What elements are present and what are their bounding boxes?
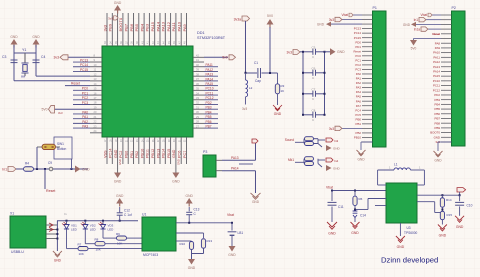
wire	[325, 51, 331, 53]
svg-text:3v3: 3v3	[329, 127, 334, 131]
MCU left pin 7	[90, 85, 102, 87]
svg-text:PA7: PA7	[356, 104, 362, 108]
MCU bottom pin 24	[143, 137, 145, 164]
svg-text:C13: C13	[194, 208, 200, 212]
ground	[438, 225, 447, 232]
svg-text:PC12: PC12	[433, 88, 441, 92]
P1 pin 6	[362, 37, 373, 39]
svg-text:PA14: PA14	[433, 70, 440, 74]
capacitor C11	[331, 191, 333, 202]
svg-text:R15: R15	[447, 213, 453, 217]
P1 pin 2	[362, 19, 373, 21]
LED VD1	[66, 221, 68, 225]
MCU top pin 33	[106, 13, 108, 46]
MCU right pin 11	[193, 104, 204, 106]
svg-text:PB5: PB5	[435, 107, 441, 111]
svg-text:PA11: PA11	[433, 55, 440, 59]
svg-text:LED: LED	[108, 228, 115, 232]
ground	[455, 216, 464, 223]
ground	[351, 222, 360, 229]
MCU DD1 STM32F103R6T body	[102, 46, 193, 137]
ground	[114, 5, 121, 14]
MCU bottom pin 30	[175, 137, 177, 173]
svg-text:Vbat: Vbat	[326, 186, 333, 190]
P1 pin 4	[362, 28, 373, 30]
svg-text:In4: In4	[334, 159, 339, 163]
svg-text:Reset: Reset	[432, 32, 440, 36]
svg-text:SW1: SW1	[57, 142, 64, 146]
X1 pin 3	[46, 233, 57, 235]
svg-text:PA9: PA9	[182, 23, 187, 31]
svg-text:PB15: PB15	[167, 149, 171, 158]
wire Vbat rail	[332, 190, 386, 192]
svg-text:PA1: PA1	[356, 77, 362, 81]
wire	[13, 45, 15, 81]
MCU right pin 12	[193, 108, 204, 110]
svg-text:PC11: PC11	[206, 91, 214, 95]
ground	[361, 141, 373, 143]
svg-text:GND: GND	[32, 35, 40, 39]
svg-text:R14: R14	[446, 198, 452, 202]
P2 pin 17	[441, 89, 452, 91]
ground	[251, 193, 261, 199]
MCU left pin 17	[90, 132, 102, 134]
MCU right pin 4	[193, 70, 204, 72]
svg-text:GND: GND	[357, 158, 365, 162]
P1 pin 19	[362, 96, 373, 98]
resistor R12	[305, 157, 314, 161]
svg-text:10K: 10K	[96, 247, 101, 251]
svg-text:3v3: 3v3	[102, 24, 107, 31]
MCU top pin 43	[159, 13, 161, 46]
svg-text:GND: GND	[397, 245, 405, 249]
pin harpoon	[49, 228, 53, 232]
MCU top pin 44	[164, 13, 166, 46]
svg-text:USBB-U: USBB-U	[11, 250, 24, 254]
svg-text:R6: R6	[359, 197, 363, 201]
P1 pin 27	[362, 132, 373, 134]
wire	[222, 170, 256, 172]
P1 pin 25	[362, 123, 373, 125]
port In1	[8, 167, 16, 172]
net label PB7	[204, 127, 218, 129]
LED VD3	[102, 221, 104, 225]
svg-text:PB12: PB12	[151, 149, 155, 158]
svg-text:GND: GND	[10, 35, 18, 39]
svg-text:PA13: PA13	[433, 65, 440, 69]
P1 pin 29	[362, 141, 373, 143]
svg-text:PB3: PB3	[145, 23, 150, 31]
svg-text:GND: GND	[82, 167, 90, 171]
wire	[255, 171, 257, 193]
resistor R6	[354, 191, 356, 196]
svg-text:GND: GND	[228, 253, 236, 257]
wire	[66, 229, 68, 249]
P1 pin 7	[362, 41, 373, 43]
resistor R10	[191, 240, 193, 243]
svg-text:R7: R7	[78, 242, 82, 246]
MCU top pin 40	[143, 13, 145, 46]
MCU right pin 3	[193, 66, 204, 68]
svg-text:PB14: PB14	[162, 149, 166, 158]
svg-text:GND: GND	[274, 112, 282, 116]
svg-text:PA2: PA2	[356, 81, 362, 85]
net label PB5	[204, 118, 218, 120]
wire	[441, 220, 443, 225]
svg-text:PB9: PB9	[108, 23, 113, 31]
port In3	[326, 138, 333, 142]
svg-text:3v3: 3v3	[329, 18, 334, 22]
svg-text:PB1: PB1	[356, 122, 362, 126]
svg-text:GND: GND	[434, 159, 442, 163]
svg-text:PB7: PB7	[124, 23, 129, 31]
svg-text:10K: 10K	[117, 242, 122, 246]
wire	[303, 138, 306, 140]
U3 right pin 1	[417, 194, 460, 196]
MCU top pin 45	[170, 13, 172, 46]
net label PB6	[204, 122, 218, 124]
svg-text:PA5: PA5	[356, 95, 362, 99]
ground	[318, 164, 322, 168]
U3 right pin 2	[417, 201, 435, 203]
IC U3 body	[386, 183, 417, 223]
wire	[277, 94, 279, 105]
svg-text:C8: C8	[312, 108, 316, 112]
capacitor C12	[119, 207, 121, 212]
MCU top pin 42	[154, 13, 156, 46]
svg-text:PB4: PB4	[435, 102, 441, 106]
svg-text:GND: GND	[351, 231, 359, 235]
MCU right pin 14	[193, 118, 204, 120]
MCU bottom pin 20	[122, 137, 124, 164]
svg-text:PB13: PB13	[156, 149, 160, 158]
ground	[438, 141, 452, 143]
MCU right pin 1	[193, 56, 204, 58]
svg-text:5V0: 5V0	[41, 108, 47, 112]
svg-text:C9: C9	[48, 161, 52, 165]
P1 pin 5	[362, 32, 373, 34]
svg-text:Mk1: Mk1	[288, 158, 294, 162]
wire	[459, 192, 461, 195]
svg-text:GND: GND	[114, 149, 118, 158]
resistor R4	[24, 167, 34, 172]
svg-text:C 1uf: C 1uf	[124, 213, 132, 217]
P2 pin 2	[441, 19, 452, 21]
P2 pin 9	[441, 52, 452, 54]
MCU left pin 8	[90, 89, 102, 91]
wire	[300, 51, 303, 53]
svg-text:Dzinn developed: Dzinn developed	[381, 256, 438, 265]
P1 pin 22	[362, 109, 373, 111]
svg-text:PA13: PA13	[161, 21, 166, 31]
capacitor C7	[303, 93, 313, 95]
svg-text:GND: GND	[456, 225, 464, 229]
svg-text:PB0: PB0	[356, 117, 362, 121]
MCU left pin 16	[90, 127, 102, 129]
P1 pin 1	[362, 14, 373, 16]
MCU top pin 48	[186, 13, 188, 46]
svg-text:GND: GND	[403, 23, 411, 27]
MCU left pin 1	[90, 56, 102, 58]
MCU left pin 5	[90, 75, 102, 77]
svg-text:C11: C11	[338, 205, 344, 209]
svg-text:PC10: PC10	[433, 79, 441, 83]
svg-text:PB10: PB10	[354, 136, 361, 140]
svg-text:PA0: PA0	[356, 72, 362, 76]
net label PB3	[204, 108, 218, 110]
wire	[245, 21, 247, 73]
P2 pin 21	[441, 108, 452, 110]
net Reset wire	[44, 169, 46, 189]
MCU bottom pin 17	[106, 137, 108, 164]
ground	[33, 39, 40, 48]
P1 pin 28	[362, 136, 373, 138]
connector P1 body	[373, 11, 387, 147]
P2 pin 24	[441, 122, 452, 124]
svg-text:R8: R8	[95, 238, 99, 242]
svg-text:GND: GND	[337, 50, 345, 54]
svg-text:X1: X1	[10, 212, 14, 216]
svg-text:PC13: PC13	[354, 27, 362, 31]
svg-text:VSS: VSS	[103, 150, 107, 158]
resistor R15	[440, 211, 444, 220]
net label PA14	[204, 80, 218, 82]
net label PC12	[204, 99, 218, 101]
MCU bottom pin 18	[111, 137, 113, 164]
port In1a	[428, 28, 441, 30]
P1 pin 26	[362, 127, 373, 129]
svg-text:GND: GND	[118, 159, 122, 165]
P2 pin 15	[441, 80, 452, 82]
P2 pin 12	[441, 66, 452, 68]
svg-text:GND: GND	[172, 149, 176, 158]
svg-text:GND: GND	[317, 22, 325, 26]
svg-text:DD1: DD1	[197, 31, 205, 35]
svg-text:PB3: PB3	[206, 106, 212, 110]
svg-text:GND: GND	[176, 159, 180, 165]
svg-text:PA6: PA6	[356, 99, 362, 103]
LED VD2	[84, 221, 86, 225]
svg-text:In1a: In1a	[414, 28, 420, 32]
svg-text:3v3: 3v3	[54, 56, 60, 60]
svg-text:PA3: PA3	[356, 86, 362, 90]
svg-text:PC2: PC2	[355, 63, 361, 67]
MCU bottom pin 19	[117, 137, 119, 173]
wire	[71, 159, 73, 169]
MCU right pin 8	[193, 89, 204, 91]
P2 pin 27	[441, 136, 452, 138]
P1 pin 17	[362, 87, 373, 89]
svg-text:PA14: PA14	[206, 77, 214, 81]
P2 pin 20	[441, 103, 452, 105]
svg-text:GND: GND	[333, 147, 341, 151]
svg-text:C5: C5	[312, 45, 316, 49]
svg-text:U3: U3	[407, 226, 411, 230]
net label PC11	[204, 94, 218, 96]
svg-text:PB0: PB0	[125, 151, 129, 158]
capacitor C10	[459, 195, 461, 201]
port 3v3	[342, 19, 362, 21]
svg-text:PB5: PB5	[206, 115, 212, 119]
svg-text:GND: GND	[188, 266, 196, 270]
P3 pin 2	[216, 170, 222, 172]
port 3v3	[342, 127, 362, 129]
MCU right pin 9	[193, 94, 204, 96]
svg-text:Vbat: Vbat	[341, 13, 348, 17]
MCU top pin 35	[117, 13, 119, 46]
U1 pin right 3	[176, 240, 192, 242]
svg-text:PB8: PB8	[435, 121, 441, 125]
svg-text:PA14: PA14	[155, 21, 160, 31]
wire	[222, 159, 256, 161]
svg-text:In3: In3	[334, 139, 339, 143]
P2 pin 10	[441, 56, 452, 58]
svg-text:GND: GND	[114, 1, 122, 5]
MCU bottom pin 28	[164, 137, 166, 164]
MCU bottom pin 32	[186, 137, 188, 164]
connector P2 body	[452, 11, 466, 146]
port 5v0	[55, 108, 91, 110]
svg-text:PA9: PA9	[435, 46, 441, 50]
resistor R3	[277, 73, 279, 84]
svg-text:PA13: PA13	[206, 73, 214, 77]
net label PA11	[204, 66, 218, 68]
svg-text:PC4: PC4	[355, 108, 361, 112]
svg-text:PD1: PD1	[355, 45, 361, 49]
MCU left pin 4	[90, 70, 102, 72]
P1 pin 8	[362, 46, 373, 48]
MCU bottom pin 29	[170, 137, 172, 164]
P1 pin 9	[362, 50, 373, 52]
ground	[114, 173, 121, 179]
P2 pin 16	[441, 85, 452, 87]
svg-text:Reset: Reset	[353, 49, 361, 53]
wire	[105, 243, 142, 245]
P1 pin 18	[362, 91, 373, 93]
capacitor C14	[354, 206, 356, 211]
port In4	[326, 158, 333, 162]
ground	[172, 173, 179, 179]
svg-text:R10: R10	[179, 242, 185, 246]
port Out	[457, 188, 466, 192]
P1 pin 11	[362, 59, 373, 61]
svg-text:PC3: PC3	[355, 68, 361, 72]
capacitor C15	[305, 142, 314, 146]
resistor R8	[85, 243, 95, 245]
svg-text:PA13: PA13	[231, 156, 239, 160]
resistor R14	[441, 195, 443, 197]
svg-text:PA14: PA14	[231, 166, 239, 170]
svg-text:PA12: PA12	[206, 68, 214, 72]
svg-text:3v3: 3v3	[287, 51, 293, 55]
P2 pin 1	[441, 14, 452, 16]
MCU top pin 38	[133, 13, 135, 46]
battery LB1	[231, 223, 233, 231]
P2 pin 18	[441, 94, 452, 96]
svg-text:PB5: PB5	[134, 23, 139, 31]
svg-text:C10: C10	[467, 204, 473, 208]
capacitor C13	[188, 207, 190, 211]
MCU left pin 13	[90, 113, 102, 115]
X1 pin 4	[46, 238, 57, 240]
X1 pin 2	[46, 229, 57, 231]
svg-text:L2: L2	[249, 86, 253, 90]
U1 pin right 1	[176, 222, 232, 224]
P1 pin 23	[362, 114, 373, 116]
P2 pin 5	[441, 33, 452, 35]
MCU top pin 46	[175, 13, 177, 46]
svg-text:MCP7403: MCP7403	[143, 253, 158, 257]
svg-text:PB11: PB11	[146, 149, 150, 158]
svg-text:PC15: PC15	[354, 36, 362, 40]
wire	[16, 168, 23, 170]
svg-text:PA11: PA11	[206, 63, 214, 67]
inductor L1	[377, 170, 379, 185]
MCU right pin 16	[193, 127, 204, 129]
svg-text:GND: GND	[252, 200, 260, 204]
svg-text:PC0: PC0	[355, 54, 361, 58]
svg-text:PC6: PC6	[178, 151, 182, 158]
wire	[203, 248, 205, 253]
ground	[188, 259, 195, 265]
ground	[116, 198, 123, 207]
svg-text:PA10: PA10	[433, 51, 440, 55]
P2 pin 23	[441, 117, 452, 119]
capacitor C16	[305, 162, 314, 166]
svg-text:R9: R9	[116, 232, 120, 236]
P1 pin 12	[362, 64, 373, 66]
svg-text:3v3: 3v3	[242, 107, 247, 111]
P1 pin 13	[362, 68, 373, 70]
P2 pin 28	[441, 141, 452, 143]
P1 pin 15	[362, 78, 373, 80]
wire	[102, 229, 104, 238]
svg-text:Vbat: Vbat	[227, 213, 234, 217]
svg-text:Vbat: Vbat	[420, 13, 427, 17]
net label PC10	[204, 89, 218, 91]
wire	[14, 52, 36, 54]
svg-text:BOOT0: BOOT0	[118, 17, 123, 31]
svg-text:LB1: LB1	[238, 231, 244, 235]
svg-text:PB7: PB7	[435, 117, 441, 121]
svg-text:3v3: 3v3	[108, 16, 113, 20]
wire	[303, 159, 305, 164]
ground	[186, 198, 193, 207]
MCU right pin 5	[193, 75, 204, 77]
P2 pin 6	[441, 38, 452, 40]
svg-text:PB2: PB2	[135, 151, 139, 158]
P1 pin 20	[362, 100, 373, 102]
net label 3v3	[245, 97, 247, 105]
MCU left pin 10	[90, 99, 102, 101]
MCU left pin 14	[90, 118, 102, 120]
capacitor C5	[303, 51, 313, 53]
P1 pin 10	[362, 55, 373, 57]
port 5v0	[204, 56, 228, 58]
ground	[330, 48, 336, 55]
wire	[127, 237, 143, 239]
wire	[84, 229, 86, 244]
svg-text:10K: 10K	[79, 252, 84, 256]
P2 pin 7	[441, 42, 452, 44]
svg-text:5V0: 5V0	[267, 14, 273, 18]
wire	[88, 248, 142, 250]
svg-text:U1: U1	[142, 213, 146, 217]
net label PA12	[204, 70, 218, 72]
svg-text:PC1: PC1	[355, 58, 361, 62]
pin harpoon	[49, 223, 53, 227]
svg-text:PB6: PB6	[129, 23, 134, 31]
